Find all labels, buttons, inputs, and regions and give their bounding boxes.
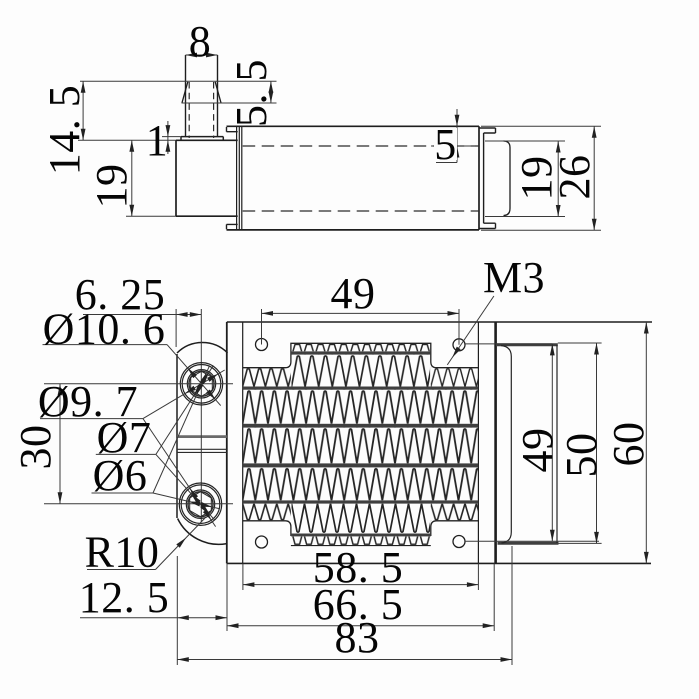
bracket lower R10 arc [178, 519, 227, 545]
svg-text:30: 30 [11, 425, 60, 470]
svg-text:83: 83 [335, 613, 380, 662]
band3 dense fins [243, 428, 479, 464]
terminal boot flare trapezoid [182, 82, 221, 103]
band1 left side short fins [243, 368, 291, 387]
svg-text:5: 5 [434, 120, 457, 169]
corner hole top-left [256, 339, 268, 351]
upper boss horizontal centerline / 30 ext [44, 383, 233, 385]
dimension 50 ext lines [558, 343, 602, 543]
dimension 60 [644, 322, 649, 563]
boss vertical centerline [200, 309, 202, 522]
fine fin band top [292, 343, 431, 351]
dimension 6.25 [83, 309, 201, 347]
left end channel bracket bar [237, 127, 242, 230]
svg-text:1: 1 [146, 116, 169, 165]
upper boss hex hint [191, 371, 213, 396]
svg-text:49: 49 [513, 428, 562, 473]
extension line flare bottom y103 [182, 102, 277, 104]
fin pack top outline with steps [243, 343, 479, 367]
right flange rounded profile [496, 345, 559, 544]
separator 4 [243, 463, 479, 467]
band2 dense fins [243, 390, 479, 424]
label Ø10.6 with underline and leader [43, 345, 221, 406]
bottom dimension ext lines [177, 546, 512, 665]
bracket upper R10 arc [177, 342, 228, 353]
separator 3 [243, 424, 479, 428]
extension line block top y140 [78, 139, 176, 141]
extension line y141 right [485, 140, 565, 142]
left bracket edge [176, 354, 178, 518]
dimension 5.5 line [269, 81, 274, 103]
upper boss circles [180, 363, 222, 405]
dimension 49 top [262, 309, 460, 345]
terminal hidden tab dashed lines [189, 82, 213, 138]
bracket groove thick line [177, 435, 227, 438]
svg-text:14. 5: 14. 5 [40, 85, 89, 176]
svg-text:26: 26 [550, 155, 599, 200]
dimension 30 line [58, 384, 63, 504]
corner hole bottom-left [256, 536, 268, 548]
terminal tab outer solid edges [186, 55, 218, 137]
plate left fold line [242, 322, 244, 563]
dimension 58.5 [243, 582, 479, 587]
dimension text 5 with mask [434, 120, 457, 169]
fine fin band bottom [292, 536, 431, 545]
band4 dense fins [243, 467, 479, 500]
extension line y216.5 right [485, 216, 565, 218]
dimension 14.5 line [81, 81, 86, 140]
fin pack bottom outline with steps [243, 521, 479, 536]
hole center ext right bottom [465, 540, 599, 542]
svg-text:M3: M3 [483, 253, 545, 302]
svg-text:Ø10. 6: Ø10. 6 [43, 305, 166, 354]
label M3 with leader [447, 296, 494, 365]
left bracket bottom lip [227, 224, 238, 229]
body left edge [226, 322, 228, 563]
dimension 19 left line [129, 140, 134, 216]
terminal boot flange on block [181, 137, 223, 141]
svg-text:8: 8 [189, 17, 212, 66]
label Ø6 with underline and two leaders [92, 366, 220, 509]
svg-text:49: 49 [331, 269, 376, 318]
connector block housing [176, 140, 238, 216]
band5 left side short fins [243, 504, 291, 521]
band5 middle fins [292, 504, 431, 534]
dimension 66.5 [227, 623, 494, 628]
frame right thick edge [494, 322, 497, 563]
label Ø7 with underline and two leaders [96, 366, 215, 520]
extension line y230 right [481, 229, 601, 231]
plate top edge [227, 321, 652, 323]
dimension 26 line [592, 126, 597, 230]
right end cap channel [480, 128, 496, 229]
svg-text:Ø6: Ø6 [93, 451, 148, 500]
dimension 83 [177, 657, 512, 662]
fine band bottom edge line [291, 545, 431, 547]
left bracket top lip [227, 127, 238, 132]
band1 middle coarse fins [292, 355, 431, 387]
right end inner rounded profile [504, 141, 511, 216]
plate bottom edge [227, 562, 651, 564]
bracket groove double thin lines [177, 449, 227, 452]
svg-text:60: 60 [604, 422, 653, 467]
separator under band5 middle [291, 534, 431, 537]
extension line terminal top y81 [80, 80, 277, 82]
label R10 with underline and leader [87, 518, 205, 570]
dimension 1 small [162, 121, 181, 154]
dimension 8 line [186, 53, 218, 58]
extension line y126 right [481, 125, 601, 127]
dimension 5 (tube wall) [431, 109, 475, 163]
label Ø9.7 with underline and two leaders [40, 370, 225, 527]
band1 right side short fins [431, 368, 479, 387]
lower boss horizontal centerline / 30 ext [44, 503, 233, 505]
lower boss hex hint [190, 492, 212, 517]
corner hole top-right M3 [453, 339, 465, 351]
hole center ext right top [465, 343, 552, 345]
svg-text:5. 5: 5. 5 [227, 59, 276, 127]
plate right fold line [477, 322, 479, 563]
band5 right side short fins [431, 504, 479, 521]
lower boss circles [179, 483, 221, 525]
main tube body outline (side view) [227, 126, 480, 230]
hidden element dashed lines inside tube [243, 146, 479, 211]
svg-text:50: 50 [557, 433, 606, 478]
svg-text:19: 19 [87, 164, 136, 209]
dimension 12.5 [80, 615, 227, 620]
svg-text:12. 5: 12. 5 [79, 573, 170, 622]
svg-text:R10: R10 [85, 528, 160, 577]
separator under top fine band [291, 351, 431, 354]
dimension 49 right [550, 344, 555, 541]
separator 2 [243, 387, 479, 390]
extension line block bottom y216 [126, 215, 176, 217]
dimension 19 right line [556, 141, 561, 217]
corner hole bottom-right [453, 536, 465, 548]
separator 5 [243, 500, 479, 503]
